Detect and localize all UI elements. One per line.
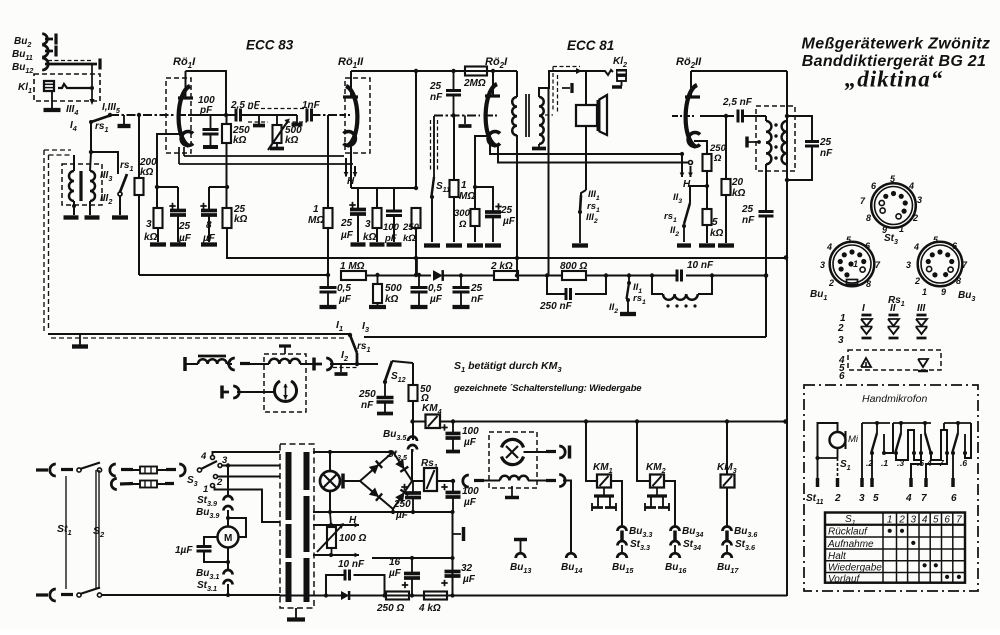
capacitor 0.5uF feedback bbox=[327, 275, 329, 287]
wire contact 2 to transformer bbox=[218, 476, 281, 478]
Kl1 switch contact bbox=[58, 84, 92, 88]
capacitor 25uF cathode 2 bbox=[357, 188, 359, 209]
capacitor 100uF 2 bbox=[452, 481, 454, 492]
fuse 2 line bbox=[120, 482, 133, 486]
svg-text:6: 6 bbox=[951, 493, 957, 504]
heater arrows H at Ro1II bbox=[345, 158, 347, 177]
node motor bottom bbox=[226, 560, 230, 564]
svg-text:kΩ: kΩ bbox=[363, 232, 377, 243]
tube Ro2I cathode bbox=[488, 132, 500, 146]
wire 25k down to supply bus bbox=[227, 228, 786, 258]
dashed box head unit bbox=[264, 354, 306, 412]
wire B+ vertical main bbox=[786, 116, 788, 596]
svg-text:4 kΩ: 4 kΩ bbox=[418, 603, 441, 614]
ground II2 bbox=[677, 243, 691, 247]
tube Ro1I dashed envelope box bbox=[166, 78, 191, 153]
link between buses x417 bbox=[416, 258, 418, 275]
svg-text:16: 16 bbox=[389, 557, 401, 568]
node I4-transformer bbox=[89, 150, 93, 154]
wire erase head out bbox=[524, 451, 547, 453]
wire anode node line bbox=[700, 115, 734, 117]
dashed box head erase unit bbox=[489, 432, 537, 488]
capacitor 25nF series bbox=[759, 210, 774, 213]
svg-text:gezeichnete ´Schalterstellung:: gezeichnete ´Schalterstellung: Wiedergab… bbox=[453, 383, 642, 394]
lamp bbox=[320, 471, 340, 491]
tube Ro2II anode bbox=[685, 95, 700, 98]
capacitor 100pF anode bbox=[210, 115, 212, 129]
resistor 500k to ground bbox=[377, 275, 379, 284]
svg-text:I: I bbox=[862, 303, 865, 314]
switch II3 rs1 II2 output bbox=[690, 186, 707, 203]
svg-text:nF: nF bbox=[361, 400, 374, 411]
shield ground tick bbox=[562, 87, 570, 89]
svg-text:100 Ω: 100 Ω bbox=[339, 533, 366, 544]
connector Bu1 bbox=[830, 242, 875, 287]
svg-text:Ω: Ω bbox=[458, 219, 467, 230]
heater row 1 with H arrow bbox=[313, 524, 331, 526]
svg-text:1µF: 1µF bbox=[175, 545, 193, 556]
wire bridge + output bbox=[411, 449, 413, 481]
node after diode bbox=[459, 273, 463, 277]
ground under rs1 tap switch bbox=[112, 215, 128, 219]
svg-text:3: 3 bbox=[365, 219, 371, 230]
ground 25uF Ro2I bbox=[485, 243, 501, 247]
resistor 1M grid Ro2I bbox=[453, 116, 455, 180]
svg-text:100: 100 bbox=[383, 222, 400, 233]
node after 1M bbox=[375, 273, 379, 277]
ground on bottom shield run bbox=[79, 334, 81, 345]
wire Bu12 shielded to Kl1 bbox=[45, 63, 97, 66]
svg-text:.1: .1 bbox=[881, 458, 888, 468]
terminal stub 2 bbox=[296, 115, 298, 123]
ground stub on I2 line bbox=[340, 364, 342, 372]
socket Bu13 bbox=[514, 538, 527, 541]
wire KM1 to Bu15 bbox=[611, 481, 622, 527]
svg-text:1: 1 bbox=[922, 287, 927, 297]
svg-text:7: 7 bbox=[921, 493, 927, 504]
ground terminal above head box bbox=[279, 344, 291, 347]
heater arrows H at Ro2II bbox=[681, 156, 683, 177]
wire secondary top row bbox=[313, 451, 393, 453]
svg-text:Ω: Ω bbox=[713, 153, 722, 164]
wire I2 line corner to 50ohm bbox=[412, 363, 414, 385]
socket Bu16 bbox=[674, 545, 676, 552]
capacitor 8uF bbox=[208, 187, 210, 210]
svg-text:8: 8 bbox=[206, 220, 212, 231]
capacitor 1uF motor bbox=[204, 537, 218, 546]
ground 5k bbox=[699, 243, 715, 247]
svg-text:3: 3 bbox=[838, 335, 844, 346]
svg-text:6: 6 bbox=[839, 371, 845, 382]
svg-text:Rücklauf: Rücklauf bbox=[828, 527, 868, 538]
svg-text:1: 1 bbox=[887, 515, 893, 526]
svg-text:ECC 81: ECC 81 bbox=[567, 38, 614, 53]
svg-text:1: 1 bbox=[313, 204, 319, 215]
node supply bus right bbox=[784, 255, 789, 260]
node after KM4 bbox=[451, 419, 455, 423]
resistor 50ohm bbox=[409, 385, 418, 401]
fuse 1 bbox=[140, 467, 157, 474]
terminal 6 bbox=[952, 453, 954, 478]
wire speaker drop bbox=[585, 71, 587, 105]
node 200k tap bbox=[137, 113, 141, 117]
node 16uF bbox=[410, 593, 414, 597]
erase head circle bbox=[502, 439, 524, 447]
wire I2 playback line bbox=[330, 363, 378, 365]
capacitor 100uF KM4 bbox=[452, 422, 454, 434]
tube Ro1II anode bbox=[343, 95, 358, 98]
svg-text:25: 25 bbox=[500, 205, 513, 216]
tube Ro1I envelope arc bbox=[179, 86, 190, 146]
svg-text:2 kΩ: 2 kΩ bbox=[490, 261, 513, 272]
ground 25uF bbox=[170, 242, 186, 246]
capacitor 16uF bbox=[404, 572, 420, 576]
ground 1M bbox=[446, 243, 462, 247]
svg-text:Wiedergabe: Wiedergabe bbox=[828, 563, 882, 574]
legend triangle down bbox=[918, 359, 928, 367]
wire I3 line bbox=[364, 336, 766, 338]
connector Bu33 St33 bbox=[618, 527, 627, 532]
svg-text:2MΩ: 2MΩ bbox=[463, 78, 486, 89]
capacitor 10nF inline bbox=[652, 275, 677, 277]
svg-text:II: II bbox=[890, 303, 896, 314]
wire bottom line full bbox=[280, 595, 787, 597]
switch S12 bbox=[385, 361, 392, 381]
tube Ro2II grid dash-dot bbox=[672, 115, 694, 117]
node 32uF/bottom bbox=[450, 593, 454, 597]
ground 20k bbox=[718, 243, 734, 247]
shielded drop to S11 bbox=[433, 116, 435, 177]
svg-text:.6: .6 bbox=[960, 458, 967, 468]
ground 8uF bbox=[201, 242, 217, 246]
svg-text:10 nF: 10 nF bbox=[687, 260, 714, 271]
svg-text:kΩ: kΩ bbox=[732, 188, 746, 199]
svg-text:500: 500 bbox=[385, 283, 402, 294]
ground stub grid bbox=[464, 116, 466, 125]
speaker feed kink bbox=[586, 70, 613, 75]
connector Bu34 St34 bbox=[671, 527, 680, 532]
svg-text:25: 25 bbox=[178, 221, 191, 232]
capacitor 25uF cathode Ro2I bbox=[475, 187, 493, 212]
switch II1 rs1 II2 bbox=[606, 275, 629, 277]
svg-text:5: 5 bbox=[933, 515, 939, 526]
diode bottom bbox=[341, 591, 349, 600]
svg-text:µF: µF bbox=[429, 294, 443, 305]
resistor 1M feedback series bbox=[341, 271, 366, 280]
node 5k/II3 bbox=[705, 184, 709, 188]
svg-text:.3: .3 bbox=[897, 458, 904, 468]
wire KM3 to Bu17 bbox=[726, 488, 728, 528]
svg-text:Handmikrofon: Handmikrofon bbox=[862, 393, 928, 405]
resistor 2k supply row bbox=[494, 271, 518, 280]
head symbol KM1 bbox=[603, 488, 605, 496]
diode supply row bbox=[433, 270, 443, 281]
power transformer secondary bars bbox=[304, 452, 310, 490]
wire pot to 1nF bbox=[277, 114, 297, 116]
svg-text:nF: nF bbox=[430, 92, 443, 103]
tube Ro1II dashed envelope box bbox=[345, 78, 370, 153]
node 20k tap bbox=[724, 114, 728, 118]
wire KM drops junction dots bbox=[584, 419, 588, 423]
svg-text:4: 4 bbox=[922, 515, 928, 526]
svg-text:kΩ: kΩ bbox=[234, 214, 248, 225]
input transformer leads bbox=[73, 155, 75, 171]
svg-text:µF: µF bbox=[340, 230, 354, 241]
wire contact 4 to transformer bbox=[213, 452, 281, 456]
capacitor 25nF supply bbox=[460, 275, 462, 287]
wire record head out bbox=[546, 479, 556, 482]
head symbol KM2 bbox=[656, 488, 658, 496]
node anode top bbox=[414, 69, 418, 73]
wire 250k to supply bus bbox=[415, 228, 417, 275]
ground 3k bbox=[150, 242, 166, 246]
svg-text:8: 8 bbox=[956, 276, 961, 286]
wire feedback bus bbox=[139, 274, 328, 276]
svg-text:4: 4 bbox=[905, 493, 912, 504]
node motor top bbox=[226, 516, 230, 520]
switch St1 top pole bbox=[77, 468, 81, 472]
svg-text:„diktina“: „diktina“ bbox=[845, 67, 943, 92]
svg-text:nF: nF bbox=[820, 148, 833, 159]
Handmikrofon dash-dot box bbox=[804, 385, 978, 591]
svg-text:.5: .5 bbox=[917, 458, 924, 468]
wire I4 down to transformer node bbox=[90, 122, 92, 152]
svg-text:8: 8 bbox=[866, 279, 871, 289]
svg-text:800 Ω: 800 Ω bbox=[560, 261, 587, 272]
wire to rs1 lower switch bbox=[91, 152, 118, 174]
socket Bu14 bbox=[566, 553, 576, 558]
secondary bottom ground bbox=[538, 144, 540, 147]
power transformer primary bars bbox=[286, 452, 292, 520]
node grid line Ro2I bbox=[451, 113, 455, 117]
capacitor 1nF coupling bbox=[306, 109, 309, 122]
terminal stub x465 bbox=[453, 533, 462, 535]
line y558 bbox=[372, 557, 453, 559]
wire bottom mains to transformer bbox=[101, 594, 280, 596]
tube Ro1I grid dash bbox=[180, 114, 190, 116]
switch bank unit A bbox=[862, 422, 890, 424]
svg-text:µF: µF bbox=[463, 437, 477, 448]
svg-text:0,5: 0,5 bbox=[337, 283, 351, 294]
wire anode node segment bbox=[190, 114, 236, 116]
output transformer right winding bbox=[786, 116, 788, 121]
ground S11 bbox=[424, 243, 440, 247]
svg-text:250 nF: 250 nF bbox=[539, 301, 573, 312]
wire cathode bus 1 bbox=[157, 186, 178, 188]
resistor 250k cathode 2 bbox=[412, 208, 421, 228]
record head coil in box bbox=[484, 480, 500, 482]
svg-text:4: 4 bbox=[826, 242, 832, 252]
tube Ro2I envelope arc bbox=[486, 84, 497, 146]
output transformer left winding bbox=[765, 116, 767, 121]
meter in head box bbox=[275, 381, 297, 402]
socket Bu17 bbox=[726, 545, 728, 552]
wire feedback tap drop bbox=[548, 88, 550, 275]
capacitor 100pF cathode 2 bbox=[393, 188, 395, 211]
resistor 3k cathode 2 bbox=[376, 188, 378, 208]
resistor 25k bbox=[223, 208, 232, 228]
wire row to LC bbox=[629, 275, 652, 277]
svg-text:H: H bbox=[349, 515, 357, 526]
wire cathode Ro1II down bbox=[350, 145, 352, 188]
node B+ output transformer bbox=[785, 114, 789, 118]
svg-text:Aufnahme: Aufnahme bbox=[827, 539, 874, 550]
microphone bottom lead bbox=[837, 448, 839, 458]
svg-text:6: 6 bbox=[944, 515, 950, 526]
switch S11 bbox=[432, 177, 435, 196]
bridge ac terminal bbox=[341, 474, 344, 489]
wire bridge top to transformer bbox=[392, 451, 394, 453]
terminal 2 bbox=[836, 478, 839, 487]
oscillator coil with core bbox=[183, 357, 186, 371]
svg-text:µF: µF bbox=[502, 216, 516, 227]
svg-text:25: 25 bbox=[741, 204, 754, 215]
connector Kl1 dashed box bbox=[34, 74, 100, 101]
svg-text:3: 3 bbox=[906, 260, 911, 270]
tube Ro1II cathode bbox=[344, 132, 356, 146]
svg-text:kΩ: kΩ bbox=[144, 232, 158, 243]
legend dashed box 4-6 bbox=[848, 350, 941, 370]
svg-text:pF: pF bbox=[199, 105, 213, 116]
svg-text:1: 1 bbox=[899, 224, 904, 234]
wire relay feed line bbox=[453, 421, 786, 423]
svg-text:µF: µF bbox=[462, 574, 476, 585]
wire cathode bus 2 bbox=[351, 187, 416, 189]
wire Ro1I anode top bbox=[186, 71, 227, 115]
svg-text:250: 250 bbox=[393, 499, 411, 510]
svg-text:2,5 nF: 2,5 nF bbox=[722, 97, 753, 108]
table S1 grid bbox=[825, 513, 965, 583]
wire to fuse bbox=[110, 464, 116, 476]
resistor 300ohm cathode Ro2I bbox=[475, 136, 487, 209]
svg-text:kΩ: kΩ bbox=[710, 228, 724, 239]
switch bank middle terminals bbox=[914, 453, 921, 460]
svg-text:µF: µF bbox=[338, 294, 352, 305]
switch bank unit B bbox=[884, 423, 893, 453]
resistor 20k bbox=[725, 116, 727, 179]
wire 200k feed bbox=[138, 115, 140, 178]
wire 200k to feedback bus bbox=[138, 195, 140, 275]
heater line pair A bbox=[183, 147, 185, 156]
output transformer dashed box bbox=[756, 106, 795, 171]
tube Ro2I grid dash bbox=[487, 115, 497, 117]
svg-text:250: 250 bbox=[358, 389, 376, 400]
capacitor 0.5uF 2 bbox=[418, 275, 420, 287]
terminal St11 bbox=[817, 458, 819, 478]
node 800ohm row left bbox=[545, 273, 549, 277]
wire signal dash-dot main line bbox=[110, 114, 176, 116]
capacitor 250nF S12 bbox=[384, 382, 386, 397]
tube Ro1I cathode bbox=[181, 132, 193, 146]
shield dashes speaker line bbox=[553, 66, 580, 68]
speaker bbox=[576, 105, 597, 126]
node Rs1 out bbox=[451, 479, 455, 483]
svg-text:kΩ: kΩ bbox=[140, 167, 154, 178]
power transformer ground bbox=[295, 608, 297, 618]
wire row to B+ vertical bbox=[712, 275, 766, 277]
mains wire bottom left bbox=[36, 593, 48, 596]
interstage transformer primary bbox=[512, 97, 517, 135]
socket Bu15 bbox=[621, 545, 623, 552]
svg-text:9: 9 bbox=[941, 287, 946, 297]
node feedback bus left bbox=[326, 273, 330, 277]
svg-text:1: 1 bbox=[461, 180, 467, 191]
input transformer dashed box bbox=[62, 164, 102, 205]
svg-text:2,5 nF: 2,5 nF bbox=[230, 100, 261, 111]
wire cathode Ro1I left bbox=[157, 134, 181, 187]
svg-text:5: 5 bbox=[712, 217, 718, 228]
resistor 4k bottom bbox=[424, 592, 447, 600]
capacitor 25nF grid Ro2I bbox=[453, 71, 455, 90]
wire to Bu14 bbox=[563, 481, 571, 553]
wire B+ top line bbox=[416, 70, 517, 72]
svg-text:7: 7 bbox=[956, 515, 962, 526]
legend diode symbols bbox=[862, 314, 872, 317]
potentiometer 500k bbox=[276, 115, 278, 125]
resistor 800ohm bbox=[547, 275, 562, 277]
svg-text:3: 3 bbox=[859, 493, 865, 504]
heater line pair B bbox=[490, 145, 682, 154]
svg-text:µF: µF bbox=[463, 497, 477, 508]
interstage transformer secondary bbox=[539, 97, 544, 144]
svg-text:MΩ: MΩ bbox=[308, 215, 324, 226]
svg-text:kΩ: kΩ bbox=[385, 294, 399, 305]
svg-text:1 MΩ: 1 MΩ bbox=[340, 261, 365, 272]
node cathode bus 1 bbox=[155, 185, 159, 189]
node cathode bus 2 bbox=[414, 186, 418, 190]
svg-text:Meßgerätewerk Zwönitz: Meßgerätewerk Zwönitz bbox=[802, 36, 991, 53]
grounds cathode group 2 bbox=[351, 242, 366, 246]
wire x453 down bbox=[452, 512, 454, 596]
resistor 200k bbox=[135, 178, 144, 195]
input transformer windings bbox=[69, 171, 74, 201]
wire KM2 to Bu16 bbox=[664, 481, 675, 527]
wire speaker bottom bbox=[585, 126, 587, 190]
meter feed jack bbox=[220, 386, 223, 399]
svg-text:20: 20 bbox=[731, 177, 744, 188]
wire B+ drop right bbox=[786, 71, 788, 116]
wire 1nF to Ro1II grid bbox=[312, 114, 341, 116]
ground transformer left bbox=[64, 215, 79, 219]
svg-text:4: 4 bbox=[200, 451, 207, 462]
motor M bbox=[218, 527, 239, 548]
svg-text:10 nF: 10 nF bbox=[338, 559, 365, 570]
svg-text:250 Ω: 250 Ω bbox=[376, 603, 404, 614]
capacitor 2.5nF to output transformer bbox=[737, 110, 740, 123]
svg-text:MΩ: MΩ bbox=[459, 191, 475, 202]
wire secondary top to Kl2 bbox=[539, 71, 586, 97]
mains wire top left bbox=[36, 468, 48, 471]
ground transformer right bbox=[85, 215, 100, 219]
switch St1 bottom pole bbox=[77, 593, 81, 597]
power transformer dashed box bbox=[280, 444, 314, 608]
resistor 3k cathode bbox=[156, 187, 158, 208]
switch bank unit C bbox=[924, 423, 926, 433]
legend triangle up bbox=[861, 358, 871, 367]
node 800ohm right bbox=[604, 273, 608, 277]
svg-text:M: M bbox=[224, 533, 232, 544]
capacitor 25uF cathode bbox=[177, 187, 179, 210]
node 8uF bus bbox=[225, 185, 229, 189]
ground 300ohm bbox=[467, 243, 483, 247]
svg-text:Mi: Mi bbox=[848, 434, 859, 445]
capacitor 32uF bbox=[452, 558, 454, 571]
switch III1 rs1 III2 bbox=[581, 190, 586, 195]
svg-text:3: 3 bbox=[146, 219, 152, 230]
svg-text:2: 2 bbox=[834, 493, 841, 504]
svg-text:3: 3 bbox=[911, 515, 917, 526]
svg-text:2: 2 bbox=[898, 515, 905, 526]
